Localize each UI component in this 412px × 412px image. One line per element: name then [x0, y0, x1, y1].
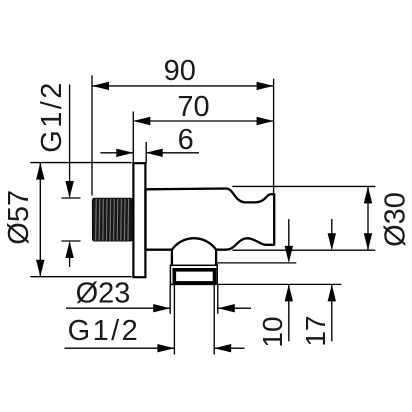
dimension diameter 23 (outlet): [66, 285, 251, 314]
outlet tube right wall: [215, 250, 217, 266]
dimension diameter 30 (body): [232, 186, 375, 250]
svg-text:G1/2: G1/2: [68, 315, 140, 347]
svg-text:10: 10: [257, 316, 288, 347]
dimension 70: [133, 112, 273, 164]
threaded pipe G1/2 (hatched block): [92, 198, 132, 241]
svg-text:Ø30: Ø30: [380, 192, 412, 247]
svg-text:17: 17: [300, 315, 331, 346]
holder body outline: [146, 189, 275, 250]
dimension 6 (flange thickness): [100, 142, 199, 163]
nut outer: [170, 265, 217, 284]
svg-text:90: 90: [164, 55, 196, 87]
wall flange plate: [133, 163, 145, 277]
outlet tube left wall: [171, 250, 173, 266]
dimension 17: [331, 219, 333, 341]
svg-text:70: 70: [177, 91, 209, 123]
reference line nut bottom extended (for 10 and 17): [217, 283, 341, 285]
svg-text:G1/2: G1/2: [36, 80, 68, 152]
dimension 10: [288, 219, 290, 341]
dimension 90: [92, 75, 274, 195]
nut inner thick ring: [174, 270, 214, 283]
dimension diameter 57 (flange): [30, 163, 131, 277]
svg-text:Ø23: Ø23: [76, 277, 131, 309]
dimension G1/2 (outlet thread): [65, 285, 245, 355]
dimension G1/2 (wall thread): [62, 85, 81, 268]
reference line for 10: [217, 262, 296, 264]
svg-text:6: 6: [178, 124, 194, 156]
svg-text:Ø57: Ø57: [3, 190, 35, 245]
